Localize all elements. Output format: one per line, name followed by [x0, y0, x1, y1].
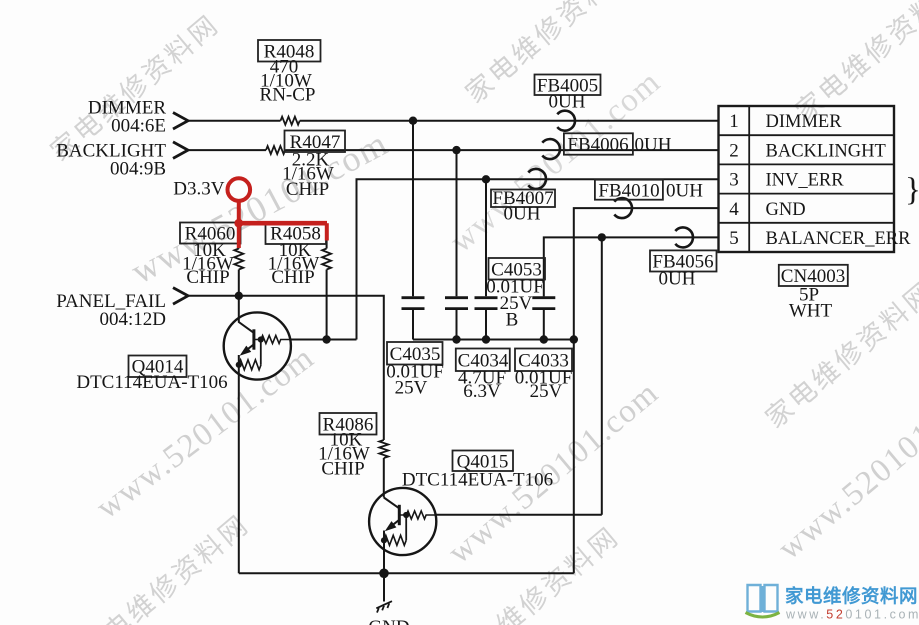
- Q4015 emitter arrowhead: [385, 521, 397, 531]
- svg-text:GND: GND: [368, 617, 409, 625]
- label box FB4056: [650, 250, 717, 289]
- label box R4048: [258, 40, 321, 106]
- wire GND stub: [383, 573, 385, 601]
- junction node bus/ground column: [570, 335, 578, 343]
- svg-text:www.520101.com: www.520101.com: [785, 608, 919, 622]
- wire BACKLIGHT net (input to pin2): [188, 149, 719, 151]
- label box CN4003: [779, 265, 848, 322]
- label box FB4006: [564, 133, 672, 155]
- label box Q4015: [402, 451, 553, 491]
- label box R4060: [180, 223, 241, 289]
- wire INV_ERR net (pin3 line and drop to Q4014 collector): [357, 179, 719, 339]
- junction node bus/C4033: [482, 335, 490, 343]
- svg-text:25V: 25V: [530, 381, 563, 402]
- capacitor C4034: [445, 150, 468, 339]
- junction node PANEL_FAIL/R4060: [235, 292, 243, 300]
- svg-text:BALANCER_ERR: BALANCER_ERR: [766, 229, 912, 249]
- svg-text:}: }: [905, 172, 919, 208]
- label box FB4010: [595, 180, 703, 202]
- svg-text:0UH: 0UH: [635, 135, 672, 156]
- wire red D3.3V horizontal to R4058: [237, 221, 327, 226]
- wire R4058 bottom: [326, 270, 328, 340]
- svg-text:D3.3V: D3.3V: [173, 179, 224, 200]
- wire GND net (pin4 line and vertical ground column): [574, 208, 719, 573]
- resistor R4060 zigzag: [234, 249, 243, 270]
- label box C4034: [456, 349, 510, 403]
- wire Q4014 collector line to INV_ERR drop: [291, 339, 357, 341]
- junction node bus/C4034: [452, 335, 460, 343]
- junction node Q4015 internal base: [403, 512, 409, 518]
- junction node Q4014 internal emitter: [236, 362, 242, 368]
- wire capacitor ground bus: [413, 339, 574, 341]
- svg-text:BACKLINGHT: BACKLINGHT: [766, 141, 886, 161]
- wire BALANCER_ERR branch down to Q4015 base line: [601, 237, 603, 514]
- inductor FB4005 arc: [557, 111, 575, 131]
- wire R4086 bottom to Q4015: [383, 458, 385, 498]
- svg-text:FB4010: FB4010: [598, 181, 659, 202]
- label box R4086: [318, 413, 376, 480]
- junction node red D3.3V: [234, 219, 243, 228]
- svg-text:3: 3: [729, 170, 739, 191]
- svg-text:0UH: 0UH: [659, 269, 696, 290]
- svg-text:B: B: [506, 310, 519, 331]
- label box R4047: [282, 131, 345, 201]
- svg-text:DTC114EUA-T106: DTC114EUA-T106: [76, 372, 227, 393]
- capacitor C4053: [532, 298, 555, 340]
- inductor FB4006 arc: [542, 139, 560, 159]
- resistor R4048 zigzag: [281, 117, 300, 125]
- svg-text:DIMMER: DIMMER: [766, 112, 843, 132]
- svg-text:家电维修资料网: 家电维修资料网: [790, 0, 919, 127]
- svg-text:004:6E: 004:6E: [111, 116, 166, 137]
- wire Q4014 emitter to rail: [238, 355, 240, 573]
- svg-text:CHIP: CHIP: [286, 179, 329, 200]
- svg-text:CHIP: CHIP: [321, 459, 364, 480]
- capacitor C4035: [402, 121, 425, 340]
- resistor R4047 zigzag: [266, 146, 285, 154]
- wire PANEL_FAIL net (input line, turn down to R4086): [188, 296, 384, 440]
- wire branch R4060 (pullup leg down to PANEL_FAIL): [238, 200, 240, 249]
- wire red drop to R4058: [325, 223, 329, 240]
- inductor FB4010 arc: [614, 198, 632, 218]
- svg-text:GND: GND: [766, 200, 806, 220]
- wire branch R4058 (pullup leg down to collector line): [326, 225, 328, 249]
- resistor R4058 zigzag: [322, 249, 331, 270]
- label box C4033: [515, 349, 573, 403]
- wire Q4014 collector entry: [239, 296, 254, 333]
- inductor FB4007 arc: [528, 169, 546, 189]
- svg-text:FB4006: FB4006: [567, 135, 628, 156]
- junction node DIMMER/C4035: [409, 117, 417, 125]
- wire red D3.3V drop: [237, 201, 241, 248]
- input arrow PANEL_FAIL: [173, 288, 188, 305]
- svg-text:家电维修资料网: 家电维修资料网: [785, 586, 918, 608]
- junction node Q4015 internal emitter: [381, 537, 387, 543]
- svg-text:25V: 25V: [395, 378, 428, 399]
- site logo book icon: [748, 585, 778, 612]
- svg-text:0UH: 0UH: [666, 181, 703, 202]
- connector CN4003 table: [719, 106, 895, 252]
- junction node Q4014 internal base: [258, 336, 264, 342]
- label box C4053: [486, 258, 545, 331]
- label box FB4007: [491, 188, 555, 225]
- label box Q4014: [76, 356, 227, 394]
- junction node BALANCER_ERR/Q4015: [598, 233, 606, 241]
- wire Q4015 base line to BALANCER_ERR drop: [436, 514, 602, 516]
- site logo green swoosh: [746, 613, 780, 618]
- power node D3.3V red circle: [228, 178, 251, 201]
- svg-text:2: 2: [729, 140, 739, 161]
- input arrow DIMMER: [173, 113, 188, 130]
- svg-text:INV_ERR: INV_ERR: [766, 171, 845, 191]
- capacitor C4033: [475, 179, 498, 339]
- transistor Q4014: [224, 312, 291, 379]
- svg-text:RN-CP: RN-CP: [260, 85, 316, 106]
- label box R4058: [266, 222, 327, 288]
- transistor Q4015: [369, 488, 436, 555]
- wire Q4015 emitter to rail: [383, 531, 385, 574]
- label box C4035: [386, 342, 444, 399]
- svg-text:DTC114EUA-T106: DTC114EUA-T106: [402, 470, 553, 491]
- wire DIMMER net (input to pin1): [188, 120, 719, 122]
- svg-text:CHIP: CHIP: [271, 267, 314, 288]
- svg-text:4: 4: [729, 199, 739, 220]
- svg-text:5: 5: [729, 228, 739, 249]
- ground symbol GND: [376, 601, 392, 612]
- wire Q4015 collector entry: [384, 498, 400, 509]
- junction node rail/GND stub: [379, 569, 389, 579]
- wire bottom emitter rail: [239, 572, 574, 574]
- svg-text:1: 1: [729, 111, 739, 132]
- svg-text:WHT: WHT: [789, 301, 833, 322]
- junction node bus/C4053: [540, 335, 548, 343]
- svg-text:004:9B: 004:9B: [110, 159, 166, 180]
- svg-text:0UH: 0UH: [504, 204, 541, 225]
- svg-text:0UH: 0UH: [549, 92, 586, 113]
- wire BALANCER_ERR net (pin5 line, drop to C4053): [544, 237, 719, 296]
- junction node INV_ERR/C4033: [482, 175, 490, 183]
- wire R4060 bottom: [238, 270, 240, 296]
- Q4014 emitter arrowhead: [240, 346, 252, 356]
- svg-text:家电维修资料网: 家电维修资料网: [760, 276, 919, 434]
- junction node BACKLIGHT/C4034: [452, 146, 460, 154]
- svg-text:家电维修资料网: 家电维修资料网: [75, 509, 255, 625]
- svg-text:6.3V: 6.3V: [463, 381, 501, 402]
- resistor R4086 zigzag: [379, 440, 388, 458]
- inductor FB4056 arc: [675, 227, 693, 247]
- junction node R4058/collector line: [322, 335, 330, 343]
- label box FB4005: [535, 75, 601, 113]
- input arrow BACKLIGHT: [173, 142, 188, 159]
- svg-text:CHIP: CHIP: [186, 267, 229, 288]
- svg-text:www.520101.com: www.520101.com: [90, 339, 321, 526]
- svg-text:004:12D: 004:12D: [100, 309, 167, 330]
